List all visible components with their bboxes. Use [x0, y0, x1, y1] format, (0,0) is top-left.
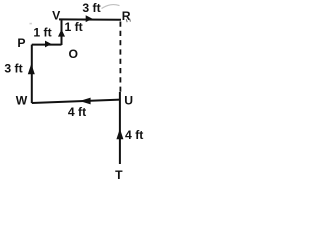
svg-text:3 ft: 3 ft [4, 62, 22, 76]
wire W-P (left vertical, 3 ft) [31, 45, 33, 103]
arrowhead on V-R wire [86, 15, 93, 22]
svg-text:1 ft: 1 ft [64, 20, 82, 34]
svg-text:4 ft: 4 ft [68, 105, 86, 119]
smudge artifact near R [102, 5, 120, 9]
arrowhead on W-P wire [28, 64, 35, 74]
svg-text:W: W [16, 93, 28, 107]
dashed line R-U [119, 22, 121, 93]
svg-text:1 ft: 1 ft [33, 25, 51, 39]
wire U-W (bottom horizontal, 4 ft) [32, 100, 120, 103]
svg-text:U: U [124, 94, 133, 108]
arrowhead on P-O wire [45, 41, 52, 48]
tick artifacts right of line end [126, 19, 130, 22]
svg-text:P: P [17, 36, 25, 50]
svg-text:V: V [52, 8, 61, 22]
svg-text:T: T [115, 168, 123, 182]
wire T-U (right vertical, 4 ft) [119, 92, 121, 164]
wire V-R (top horizontal, 3 ft) [59, 18, 121, 20]
arrowhead on U-W wire [80, 98, 91, 105]
speck artifact [30, 23, 32, 25]
svg-text:4 ft: 4 ft [125, 128, 143, 142]
arrowhead on O-V wire [58, 29, 65, 36]
arrowhead on T-U wire [116, 129, 123, 140]
wire O-V (vertical, 1 ft) [61, 19, 63, 45]
svg-text:O: O [68, 47, 77, 61]
svg-text:3 ft: 3 ft [82, 1, 100, 15]
wire P-O (horizontal, 1 ft) [32, 44, 62, 46]
